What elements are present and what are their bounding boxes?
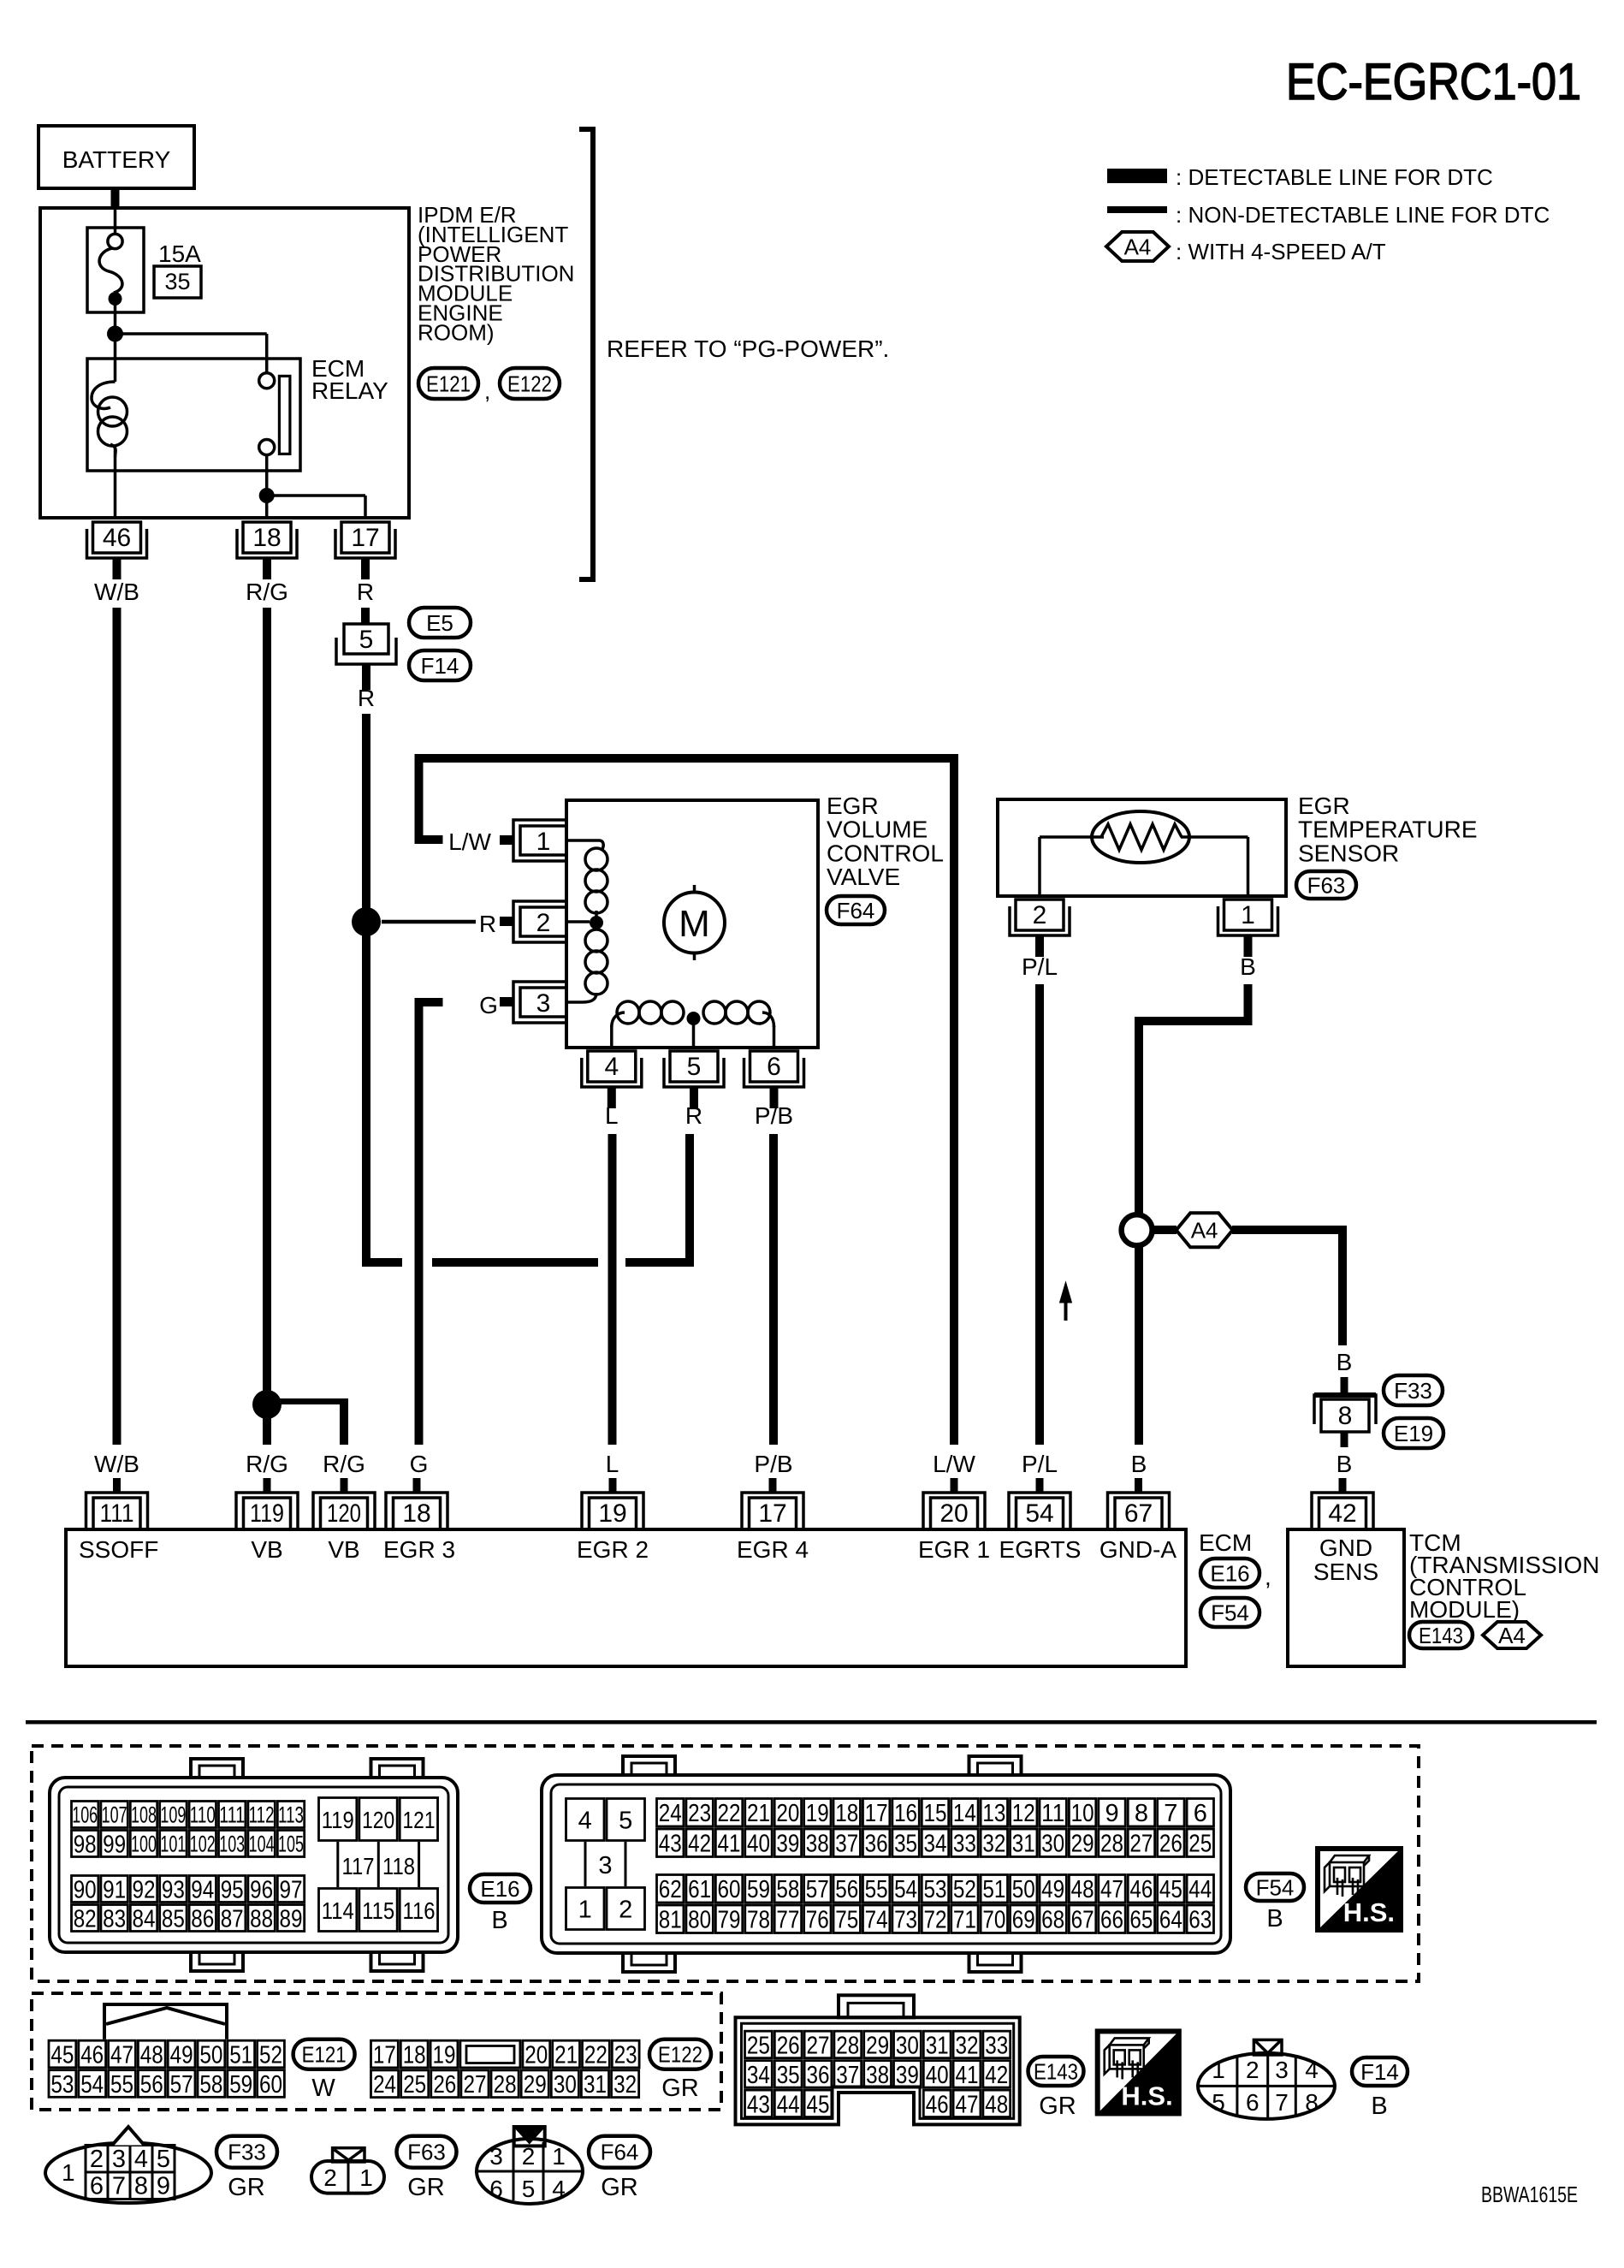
svg-text:F54: F54 bbox=[1256, 1874, 1295, 1900]
svg-text:44: 44 bbox=[1188, 1876, 1212, 1903]
svg-text:VB: VB bbox=[251, 1536, 282, 1563]
svg-text:B: B bbox=[1240, 953, 1256, 980]
svg-text:GND-A: GND-A bbox=[1099, 1536, 1177, 1563]
svg-text:F33: F33 bbox=[228, 2140, 266, 2165]
svg-text:92: 92 bbox=[133, 1876, 156, 1903]
svg-text:EGR 1: EGR 1 bbox=[918, 1536, 990, 1563]
svg-text:8: 8 bbox=[1135, 1800, 1148, 1827]
svg-text:121: 121 bbox=[403, 1807, 436, 1833]
svg-text:30: 30 bbox=[1041, 1831, 1064, 1858]
svg-text:77: 77 bbox=[776, 1907, 799, 1934]
svg-text:46: 46 bbox=[1129, 1876, 1153, 1903]
svg-text:73: 73 bbox=[894, 1907, 917, 1934]
svg-text:E143: E143 bbox=[1419, 1623, 1463, 1648]
svg-text:3: 3 bbox=[112, 2146, 126, 2173]
svg-text:25: 25 bbox=[403, 2071, 426, 2099]
svg-text:48: 48 bbox=[140, 2041, 163, 2069]
svg-text:L/W: L/W bbox=[933, 1451, 975, 1477]
svg-text:88: 88 bbox=[250, 1905, 273, 1933]
svg-text:E122: E122 bbox=[658, 2042, 702, 2068]
svg-text:78: 78 bbox=[747, 1907, 770, 1934]
svg-text:E121: E121 bbox=[426, 371, 471, 396]
svg-text:51: 51 bbox=[982, 1876, 1005, 1903]
svg-text:33: 33 bbox=[985, 2032, 1008, 2059]
svg-text:105: 105 bbox=[278, 1832, 304, 1857]
svg-text:H.S.: H.S. bbox=[1343, 1897, 1395, 1927]
svg-text:L: L bbox=[606, 1451, 619, 1477]
svg-text:72: 72 bbox=[923, 1907, 946, 1934]
svg-text:42: 42 bbox=[1328, 1499, 1356, 1528]
svg-text:38: 38 bbox=[866, 2062, 889, 2089]
svg-text:7: 7 bbox=[1275, 2089, 1289, 2116]
svg-text:20: 20 bbox=[776, 1800, 799, 1827]
svg-text:52: 52 bbox=[259, 2041, 282, 2069]
svg-text:63: 63 bbox=[1188, 1907, 1212, 1934]
svg-text:65: 65 bbox=[1129, 1907, 1153, 1934]
svg-text:61: 61 bbox=[688, 1876, 711, 1903]
svg-text:15A: 15A bbox=[158, 240, 201, 267]
svg-text:110: 110 bbox=[190, 1802, 216, 1828]
svg-text:52: 52 bbox=[953, 1876, 976, 1903]
svg-text:19: 19 bbox=[806, 1800, 829, 1827]
svg-text:120: 120 bbox=[362, 1807, 394, 1833]
svg-text:VALVE: VALVE bbox=[827, 864, 900, 890]
svg-text:EGRTS: EGRTS bbox=[999, 1536, 1082, 1563]
svg-text:76: 76 bbox=[806, 1907, 829, 1934]
svg-text:4: 4 bbox=[578, 1807, 592, 1834]
svg-text:104: 104 bbox=[249, 1832, 275, 1857]
svg-text:8: 8 bbox=[134, 2173, 148, 2200]
svg-text:5: 5 bbox=[619, 1807, 632, 1834]
svg-text:GR: GR bbox=[407, 2174, 445, 2201]
svg-text:1: 1 bbox=[1241, 901, 1255, 929]
svg-text:90: 90 bbox=[74, 1876, 97, 1903]
svg-text:1: 1 bbox=[536, 828, 551, 856]
svg-text:45: 45 bbox=[1159, 1876, 1182, 1903]
svg-text:57: 57 bbox=[806, 1876, 829, 1903]
svg-text:ECM: ECM bbox=[1199, 1529, 1252, 1556]
svg-text:107: 107 bbox=[102, 1802, 127, 1828]
svg-text:B: B bbox=[1131, 1451, 1147, 1477]
svg-text:3: 3 bbox=[536, 989, 551, 1018]
svg-text:101: 101 bbox=[160, 1832, 186, 1857]
svg-text:56: 56 bbox=[835, 1876, 858, 1903]
svg-text:EGR 4: EGR 4 bbox=[737, 1536, 809, 1563]
svg-text:42: 42 bbox=[985, 2062, 1008, 2089]
svg-text:A4: A4 bbox=[1191, 1218, 1218, 1244]
svg-text:83: 83 bbox=[103, 1905, 126, 1933]
svg-text:35: 35 bbox=[894, 1831, 917, 1858]
svg-text:114: 114 bbox=[322, 1897, 354, 1924]
svg-text:45: 45 bbox=[50, 2041, 74, 2069]
svg-text:119: 119 bbox=[322, 1807, 354, 1833]
svg-text:113: 113 bbox=[278, 1802, 304, 1828]
svg-text:18: 18 bbox=[403, 2041, 426, 2069]
svg-text:84: 84 bbox=[133, 1905, 156, 1933]
svg-text:E122: E122 bbox=[507, 371, 552, 396]
svg-text:68: 68 bbox=[1041, 1907, 1064, 1934]
svg-text:SSOFF: SSOFF bbox=[79, 1536, 158, 1563]
svg-text:F14: F14 bbox=[1360, 2059, 1399, 2085]
svg-text:47: 47 bbox=[956, 2091, 979, 2118]
svg-text:98: 98 bbox=[74, 1831, 97, 1858]
svg-text:16: 16 bbox=[894, 1800, 917, 1827]
svg-text:100: 100 bbox=[131, 1832, 157, 1857]
svg-text:26: 26 bbox=[777, 2032, 800, 2059]
svg-text:111: 111 bbox=[219, 1802, 245, 1828]
svg-text:95: 95 bbox=[221, 1876, 244, 1903]
svg-text:117: 117 bbox=[342, 1853, 375, 1879]
svg-text:EGR 3: EGR 3 bbox=[383, 1536, 455, 1563]
svg-text:32: 32 bbox=[956, 2032, 979, 2059]
svg-text:REFER TO “PG-POWER”.: REFER TO “PG-POWER”. bbox=[607, 335, 889, 362]
svg-text:29: 29 bbox=[524, 2071, 547, 2099]
svg-text:F64: F64 bbox=[837, 898, 875, 923]
svg-text:RELAY: RELAY bbox=[311, 377, 388, 404]
svg-text:70: 70 bbox=[982, 1907, 1005, 1934]
svg-text:99: 99 bbox=[103, 1831, 126, 1858]
svg-text:31: 31 bbox=[584, 2071, 607, 2099]
svg-text:F63: F63 bbox=[407, 2140, 446, 2165]
svg-text:E121: E121 bbox=[302, 2042, 347, 2068]
svg-text:34: 34 bbox=[747, 2062, 770, 2089]
svg-text:CONTROL: CONTROL bbox=[827, 840, 944, 866]
svg-text:45: 45 bbox=[807, 2091, 830, 2118]
svg-text:44: 44 bbox=[777, 2091, 800, 2118]
svg-text:BATTERY: BATTERY bbox=[62, 146, 171, 173]
svg-text:15: 15 bbox=[923, 1800, 946, 1827]
svg-text:43: 43 bbox=[659, 1831, 682, 1858]
svg-text:H.S.: H.S. bbox=[1121, 2081, 1172, 2111]
svg-text:R/G: R/G bbox=[323, 1451, 365, 1477]
svg-text:80: 80 bbox=[688, 1907, 711, 1934]
svg-text:19: 19 bbox=[433, 2041, 456, 2069]
svg-text:3: 3 bbox=[489, 2143, 503, 2170]
svg-text:E19: E19 bbox=[1394, 1421, 1433, 1446]
svg-text:GND: GND bbox=[1319, 1535, 1372, 1561]
svg-text:ROOM): ROOM) bbox=[418, 319, 495, 345]
svg-text:17: 17 bbox=[351, 524, 379, 552]
svg-text:5: 5 bbox=[359, 626, 374, 654]
svg-text:30: 30 bbox=[554, 2071, 577, 2099]
svg-text:1: 1 bbox=[1212, 2057, 1225, 2083]
svg-text:54: 54 bbox=[894, 1876, 917, 1903]
svg-text:96: 96 bbox=[250, 1876, 273, 1903]
svg-text:23: 23 bbox=[614, 2041, 637, 2069]
svg-text:97: 97 bbox=[280, 1876, 303, 1903]
svg-text:111: 111 bbox=[100, 1499, 134, 1528]
svg-text:6: 6 bbox=[1246, 2089, 1259, 2116]
svg-text:6: 6 bbox=[489, 2176, 503, 2202]
svg-text:24: 24 bbox=[659, 1800, 682, 1827]
svg-text:58: 58 bbox=[199, 2071, 222, 2099]
svg-text:85: 85 bbox=[162, 1905, 185, 1933]
svg-text:2: 2 bbox=[1246, 2057, 1259, 2083]
svg-text:60: 60 bbox=[718, 1876, 741, 1903]
svg-text:E16: E16 bbox=[1210, 1560, 1249, 1586]
svg-text:2: 2 bbox=[536, 909, 551, 937]
svg-text:118: 118 bbox=[382, 1853, 415, 1879]
svg-text:M: M bbox=[679, 903, 710, 945]
svg-text:SENSOR: SENSOR bbox=[1298, 840, 1399, 866]
svg-text:: DETECTABLE LINE FOR DTC: : DETECTABLE LINE FOR DTC bbox=[1176, 164, 1493, 190]
svg-text:18: 18 bbox=[835, 1800, 858, 1827]
svg-text:6: 6 bbox=[1194, 1800, 1207, 1827]
svg-text:75: 75 bbox=[835, 1907, 858, 1934]
svg-text:67: 67 bbox=[1124, 1499, 1153, 1528]
svg-text:42: 42 bbox=[688, 1831, 711, 1858]
svg-text:F64: F64 bbox=[601, 2140, 639, 2165]
svg-text:E143: E143 bbox=[1034, 2058, 1078, 2084]
svg-text:91: 91 bbox=[103, 1876, 126, 1903]
svg-text:21: 21 bbox=[747, 1800, 770, 1827]
svg-text:1: 1 bbox=[359, 2164, 373, 2191]
svg-text:2: 2 bbox=[1033, 901, 1047, 929]
svg-text:13: 13 bbox=[982, 1800, 1005, 1827]
svg-text:2: 2 bbox=[323, 2164, 337, 2191]
svg-text:47: 47 bbox=[1100, 1876, 1123, 1903]
svg-text:20: 20 bbox=[525, 2041, 548, 2069]
svg-text:66: 66 bbox=[1100, 1907, 1123, 1934]
svg-text:35: 35 bbox=[777, 2062, 800, 2089]
svg-text:58: 58 bbox=[776, 1876, 799, 1903]
svg-text:B: B bbox=[491, 1907, 507, 1934]
svg-text:A4: A4 bbox=[1124, 234, 1152, 259]
svg-text:27: 27 bbox=[807, 2032, 830, 2059]
svg-text:51: 51 bbox=[229, 2041, 252, 2069]
svg-text:48: 48 bbox=[1071, 1876, 1094, 1903]
svg-text:L/W: L/W bbox=[448, 828, 491, 855]
svg-text:9: 9 bbox=[157, 2173, 170, 2200]
svg-text:VB: VB bbox=[328, 1536, 359, 1563]
svg-text:81: 81 bbox=[659, 1907, 682, 1934]
svg-text:28: 28 bbox=[494, 2071, 517, 2099]
svg-text:R/G: R/G bbox=[246, 579, 288, 605]
svg-text:20: 20 bbox=[939, 1499, 968, 1528]
svg-text:29: 29 bbox=[1071, 1831, 1094, 1858]
svg-text:54: 54 bbox=[80, 2071, 104, 2099]
svg-text:BBWA1615E: BBWA1615E bbox=[1481, 2182, 1578, 2207]
svg-text:11: 11 bbox=[1041, 1800, 1064, 1827]
svg-text:38: 38 bbox=[806, 1831, 829, 1858]
svg-text:25: 25 bbox=[1188, 1831, 1212, 1858]
svg-text:4: 4 bbox=[552, 2176, 566, 2202]
svg-text:64: 64 bbox=[1159, 1907, 1182, 1934]
svg-text:6: 6 bbox=[767, 1053, 781, 1081]
svg-text:43: 43 bbox=[747, 2091, 770, 2118]
svg-text:54: 54 bbox=[1025, 1499, 1053, 1528]
svg-text:: WITH 4-SPEED A/T: : WITH 4-SPEED A/T bbox=[1176, 239, 1386, 264]
svg-text:1: 1 bbox=[62, 2159, 75, 2186]
svg-text:7: 7 bbox=[1164, 1800, 1177, 1827]
svg-text:14: 14 bbox=[953, 1800, 976, 1827]
svg-text:B: B bbox=[1371, 2093, 1387, 2120]
svg-text:28: 28 bbox=[836, 2032, 859, 2059]
svg-text:6: 6 bbox=[90, 2173, 104, 2200]
svg-text:VOLUME: VOLUME bbox=[827, 816, 928, 843]
svg-text:36: 36 bbox=[807, 2062, 830, 2089]
svg-text:EGR: EGR bbox=[1298, 793, 1350, 819]
svg-text:31: 31 bbox=[926, 2032, 949, 2059]
svg-text:32: 32 bbox=[982, 1831, 1005, 1858]
svg-text:4: 4 bbox=[1305, 2057, 1319, 2083]
svg-text:7: 7 bbox=[112, 2173, 126, 2200]
svg-text:F63: F63 bbox=[1307, 872, 1346, 898]
svg-text:3: 3 bbox=[1275, 2057, 1289, 2083]
svg-text:25: 25 bbox=[747, 2032, 770, 2059]
svg-text:4: 4 bbox=[134, 2146, 148, 2173]
svg-text:SENS: SENS bbox=[1313, 1559, 1378, 1585]
svg-text:1: 1 bbox=[552, 2143, 566, 2170]
svg-text:12: 12 bbox=[1012, 1800, 1035, 1827]
svg-text:F54: F54 bbox=[1211, 1600, 1249, 1625]
svg-text:30: 30 bbox=[896, 2032, 919, 2059]
svg-text:87: 87 bbox=[221, 1905, 244, 1933]
svg-text:103: 103 bbox=[219, 1832, 245, 1857]
svg-text:GR: GR bbox=[1039, 2093, 1076, 2120]
svg-text:24: 24 bbox=[373, 2071, 396, 2099]
svg-text:22: 22 bbox=[584, 2041, 608, 2069]
svg-text:P/L: P/L bbox=[1022, 953, 1058, 980]
svg-text:5: 5 bbox=[687, 1053, 702, 1081]
svg-text:112: 112 bbox=[249, 1802, 275, 1828]
svg-text:41: 41 bbox=[956, 2062, 979, 2089]
svg-text:E16: E16 bbox=[480, 1876, 519, 1902]
svg-text:59: 59 bbox=[229, 2071, 252, 2099]
svg-text:19: 19 bbox=[598, 1499, 626, 1528]
svg-text:GR: GR bbox=[228, 2174, 265, 2201]
svg-text:R: R bbox=[358, 685, 375, 711]
svg-text:TEMPERATURE: TEMPERATURE bbox=[1298, 816, 1478, 843]
svg-text:102: 102 bbox=[190, 1832, 216, 1857]
svg-text:49: 49 bbox=[1041, 1876, 1064, 1903]
svg-text:EGR 2: EGR 2 bbox=[577, 1536, 649, 1563]
svg-text:79: 79 bbox=[718, 1907, 741, 1934]
svg-text:R: R bbox=[685, 1102, 702, 1129]
svg-text:86: 86 bbox=[191, 1905, 214, 1933]
svg-text:33: 33 bbox=[953, 1831, 976, 1858]
svg-text:28: 28 bbox=[1100, 1831, 1123, 1858]
svg-text:EC-EGRC1-01: EC-EGRC1-01 bbox=[1286, 53, 1581, 110]
svg-text:GR: GR bbox=[661, 2075, 699, 2102]
svg-text:39: 39 bbox=[896, 2062, 919, 2089]
svg-text:4: 4 bbox=[604, 1053, 619, 1081]
svg-text:P/B: P/B bbox=[754, 1451, 792, 1477]
svg-text:106: 106 bbox=[72, 1802, 98, 1828]
svg-text:55: 55 bbox=[110, 2071, 133, 2099]
svg-text:5: 5 bbox=[1212, 2089, 1225, 2116]
svg-text:3: 3 bbox=[598, 1852, 612, 1879]
svg-text:17: 17 bbox=[373, 2041, 396, 2069]
svg-text:F14: F14 bbox=[421, 653, 459, 679]
svg-text:27: 27 bbox=[1129, 1831, 1153, 1858]
svg-text:GR: GR bbox=[601, 2174, 638, 2201]
svg-text:120: 120 bbox=[327, 1499, 361, 1528]
svg-text:35: 35 bbox=[164, 269, 190, 294]
svg-text:B: B bbox=[1266, 1905, 1283, 1933]
svg-text:50: 50 bbox=[199, 2041, 222, 2069]
svg-text:W/B: W/B bbox=[94, 579, 139, 605]
svg-text:37: 37 bbox=[836, 2062, 859, 2089]
svg-text:40: 40 bbox=[926, 2062, 949, 2089]
svg-text:67: 67 bbox=[1071, 1907, 1094, 1934]
svg-text:40: 40 bbox=[747, 1831, 770, 1858]
svg-text:2: 2 bbox=[619, 1896, 632, 1923]
svg-text:P/B: P/B bbox=[755, 1102, 793, 1129]
svg-text:74: 74 bbox=[865, 1907, 888, 1934]
svg-text:E5: E5 bbox=[426, 610, 453, 636]
svg-text:R: R bbox=[357, 579, 374, 605]
svg-text:56: 56 bbox=[140, 2071, 163, 2099]
svg-text:119: 119 bbox=[250, 1499, 284, 1528]
svg-text:B: B bbox=[1337, 1349, 1353, 1375]
svg-text:R/G: R/G bbox=[246, 1451, 288, 1477]
svg-text:27: 27 bbox=[463, 2071, 486, 2099]
svg-text:W: W bbox=[311, 2075, 335, 2102]
svg-text:MODULE): MODULE) bbox=[1409, 1596, 1520, 1623]
svg-text:18: 18 bbox=[402, 1499, 430, 1528]
svg-text:,: , bbox=[1265, 1564, 1271, 1590]
svg-text:55: 55 bbox=[865, 1876, 888, 1903]
svg-text:W/B: W/B bbox=[94, 1451, 139, 1477]
svg-text:50: 50 bbox=[1012, 1876, 1035, 1903]
svg-text:: NON-DETECTABLE LINE FOR DTC: : NON-DETECTABLE LINE FOR DTC bbox=[1176, 202, 1550, 228]
svg-text:R: R bbox=[479, 911, 496, 937]
svg-text:G: G bbox=[479, 992, 498, 1018]
svg-text:5: 5 bbox=[157, 2146, 170, 2173]
svg-text:49: 49 bbox=[170, 2041, 193, 2069]
svg-text:5: 5 bbox=[522, 2176, 536, 2202]
svg-text:116: 116 bbox=[403, 1897, 436, 1924]
svg-text:89: 89 bbox=[280, 1905, 303, 1933]
svg-text:F33: F33 bbox=[1394, 1378, 1432, 1404]
svg-text:53: 53 bbox=[923, 1876, 946, 1903]
svg-text:59: 59 bbox=[747, 1876, 770, 1903]
svg-text:115: 115 bbox=[362, 1897, 394, 1924]
svg-text:37: 37 bbox=[835, 1831, 858, 1858]
svg-text:46: 46 bbox=[80, 2041, 104, 2069]
svg-text:9: 9 bbox=[1105, 1800, 1118, 1827]
svg-text:P/L: P/L bbox=[1022, 1451, 1058, 1477]
svg-text:8: 8 bbox=[1338, 1402, 1353, 1430]
svg-text:48: 48 bbox=[985, 2091, 1008, 2118]
svg-text:,: , bbox=[484, 378, 490, 404]
svg-text:53: 53 bbox=[50, 2071, 74, 2099]
svg-text:41: 41 bbox=[718, 1831, 741, 1858]
svg-text:8: 8 bbox=[1305, 2089, 1319, 2116]
svg-text:A4: A4 bbox=[1498, 1623, 1526, 1648]
svg-text:18: 18 bbox=[252, 524, 281, 552]
svg-text:26: 26 bbox=[433, 2071, 456, 2099]
svg-text:47: 47 bbox=[110, 2041, 133, 2069]
svg-text:57: 57 bbox=[170, 2071, 193, 2099]
svg-text:17: 17 bbox=[758, 1499, 786, 1528]
svg-text:34: 34 bbox=[923, 1831, 946, 1858]
svg-text:21: 21 bbox=[554, 2041, 578, 2069]
svg-text:32: 32 bbox=[613, 2071, 637, 2099]
svg-text:94: 94 bbox=[191, 1876, 214, 1903]
svg-text:36: 36 bbox=[865, 1831, 888, 1858]
svg-text:82: 82 bbox=[74, 1905, 97, 1933]
svg-text:108: 108 bbox=[131, 1802, 157, 1828]
svg-text:71: 71 bbox=[953, 1907, 976, 1934]
svg-text:39: 39 bbox=[776, 1831, 799, 1858]
svg-text:1: 1 bbox=[578, 1896, 592, 1923]
svg-text:109: 109 bbox=[160, 1802, 186, 1828]
svg-text:22: 22 bbox=[718, 1800, 741, 1827]
svg-text:60: 60 bbox=[259, 2071, 282, 2099]
svg-text:B: B bbox=[1337, 1451, 1353, 1477]
